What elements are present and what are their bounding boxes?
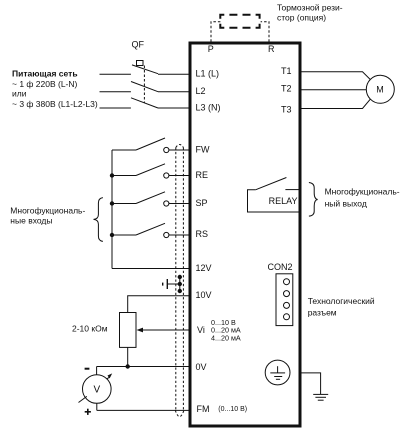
svg-text:Многофукциональ-: Многофукциональ- bbox=[10, 206, 85, 216]
svg-text:ный выход: ный выход bbox=[325, 199, 367, 209]
switch RE contact circle bbox=[164, 173, 169, 178]
svg-text:L3 (N): L3 (N) bbox=[196, 102, 221, 112]
label multifunction output text bbox=[325, 186, 400, 208]
label plus sign bbox=[85, 409, 91, 415]
relay K1 contact blade bbox=[256, 178, 287, 190]
protective earth circle PE bbox=[265, 360, 290, 385]
breaker QF pole 3 blade bbox=[131, 98, 158, 108]
svg-text:R: R bbox=[268, 44, 275, 54]
switch FW stub bbox=[112, 149, 136, 151]
svg-text:M: M bbox=[376, 85, 384, 95]
svg-text:P: P bbox=[208, 44, 214, 54]
breaker QF latch square bbox=[137, 61, 144, 66]
inverter main box U1 bbox=[190, 43, 300, 426]
brace multifunction inputs bbox=[94, 198, 103, 242]
multifunction inputs bus bbox=[111, 150, 113, 269]
wire Vi wiper with arrow bbox=[142, 329, 190, 331]
svg-text:RE: RE bbox=[196, 170, 209, 180]
wire T1 to motor bbox=[300, 72, 371, 80]
switch SP stub bbox=[112, 203, 136, 205]
svg-text:Технологический: Технологический bbox=[308, 296, 375, 306]
wire supply line 1 left bbox=[100, 73, 131, 75]
switch RS blade bbox=[136, 223, 165, 235]
label braking resistor text bbox=[277, 2, 343, 22]
svg-text:~ 1 ф 220В (L-N): ~ 1 ф 220В (L-N) bbox=[12, 79, 78, 89]
breaker QF pole 2 blade bbox=[131, 82, 158, 92]
wire pole 1 to L1 bbox=[158, 73, 190, 75]
shield dashed line right bbox=[182, 148, 184, 411]
wire dashed P to resistor bbox=[211, 22, 221, 42]
svg-text:SP: SP bbox=[196, 198, 208, 208]
wire 12V from bus bbox=[112, 268, 190, 270]
label minus sign bbox=[85, 368, 90, 370]
potentiometer RP1 body bbox=[120, 313, 137, 348]
shield dashed arc bottom bbox=[175, 410, 184, 416]
svg-text:RELAY: RELAY bbox=[269, 196, 298, 206]
switch FW blade bbox=[136, 138, 165, 150]
wire potentiometer bottom to 0V bbox=[127, 347, 129, 366]
wire T3 to motor bbox=[300, 99, 371, 108]
svg-text:Многофукциональ-: Многофукциональ- bbox=[325, 186, 400, 196]
connector CON2 body bbox=[276, 274, 293, 326]
svg-text:стор (опция): стор (опция) bbox=[277, 13, 326, 23]
voltmeter needle lower segment bbox=[79, 396, 87, 402]
switch SP contact circle bbox=[164, 201, 169, 206]
svg-text:T1: T1 bbox=[281, 66, 292, 76]
junction dot RE bbox=[110, 173, 114, 177]
wire voltmeter minus lead bbox=[96, 367, 98, 375]
wire FW to box bbox=[169, 149, 190, 151]
junction dot SP bbox=[110, 201, 114, 205]
svg-text:FW: FW bbox=[196, 145, 210, 155]
svg-text:Питающая сеть: Питающая сеть bbox=[12, 69, 78, 79]
wire pole 2 to L2 bbox=[158, 91, 190, 93]
wire 0V bbox=[97, 366, 190, 368]
junction dot RS bbox=[110, 233, 114, 237]
wire 10V bbox=[128, 296, 190, 313]
wire SP to box bbox=[169, 203, 190, 205]
relay K1 box bbox=[248, 190, 300, 212]
switch RE blade bbox=[136, 164, 165, 176]
svg-text:0V: 0V bbox=[196, 362, 207, 372]
ground symbol earth bbox=[313, 394, 328, 400]
svg-text:12V: 12V bbox=[196, 263, 212, 273]
switch SP blade bbox=[136, 192, 165, 204]
wire supply line 3 left bbox=[100, 107, 131, 109]
wire T2 to motor bbox=[300, 89, 367, 91]
wire pole 3 to L3 bbox=[158, 107, 190, 109]
label Vi ranges text bbox=[211, 318, 241, 342]
svg-text:(0...10 В): (0...10 В) bbox=[218, 406, 247, 413]
svg-text:L2: L2 bbox=[196, 86, 206, 96]
junction dot 0V/pot bbox=[126, 364, 130, 368]
switch FW contact circle bbox=[164, 147, 169, 152]
braking resistor R-brake (dashed, option) bbox=[220, 15, 259, 28]
svg-text:4...20 мА: 4...20 мА bbox=[211, 333, 241, 342]
svg-text:10V: 10V bbox=[196, 290, 212, 300]
shield ground tie dots and link bbox=[163, 275, 182, 293]
svg-text:или: или bbox=[12, 89, 27, 99]
svg-text:RS: RS bbox=[196, 229, 209, 239]
wire voltmeter plus lead bbox=[96, 403, 98, 410]
svg-text:Vi: Vi bbox=[197, 325, 205, 335]
wire supply line 2 left bbox=[100, 91, 131, 93]
svg-text:разъем: разъем bbox=[308, 308, 337, 318]
wire earth from box bbox=[300, 373, 321, 395]
connector CON2 pin 1 bbox=[284, 279, 290, 285]
voltmeter PV1 circle bbox=[83, 375, 112, 404]
label multifunction inputs text bbox=[10, 206, 85, 226]
wire RE to box bbox=[169, 175, 190, 177]
svg-text:T2: T2 bbox=[281, 84, 292, 94]
shield dashed arc top bbox=[176, 145, 184, 148]
voltmeter needle arrow bbox=[107, 373, 113, 379]
wire FM bbox=[97, 409, 190, 411]
shield dashed line left bbox=[175, 148, 177, 411]
motor M1 circle bbox=[366, 75, 394, 103]
svg-text:2-10 кОм: 2-10 кОм bbox=[72, 323, 108, 333]
svg-text:ные входы: ные входы bbox=[10, 216, 52, 226]
svg-text:Тормозной рези-: Тормозной рези- bbox=[277, 2, 343, 12]
connector CON2 pin 4 bbox=[284, 314, 290, 320]
supply text block bbox=[12, 69, 98, 109]
breaker QF linkage (dashed) bbox=[143, 66, 145, 104]
arrowhead wiper bbox=[137, 328, 144, 333]
svg-text:FM: FM bbox=[197, 404, 210, 414]
switch RE stub bbox=[112, 175, 136, 177]
svg-text:T3: T3 bbox=[281, 104, 292, 114]
connector CON2 pin 2 bbox=[284, 291, 290, 297]
switch RS contact circle bbox=[164, 232, 169, 237]
svg-text:CON2: CON2 bbox=[268, 262, 293, 272]
wire dashed R to resistor bbox=[261, 22, 269, 42]
svg-text:V: V bbox=[93, 385, 100, 396]
switch RS stub bbox=[112, 234, 136, 236]
brace multifunction output bbox=[309, 183, 318, 217]
breaker QF pole 1 blade bbox=[132, 65, 158, 74]
svg-text:QF: QF bbox=[132, 40, 145, 50]
label technology connector text bbox=[308, 296, 375, 318]
svg-text:L1 (L): L1 (L) bbox=[196, 69, 220, 79]
wire RS to box bbox=[169, 234, 190, 236]
connector CON2 pin 3 bbox=[284, 302, 290, 308]
svg-text:~ 3 ф 380В (L1-L2-L3): ~ 3 ф 380В (L1-L2-L3) bbox=[12, 99, 98, 109]
